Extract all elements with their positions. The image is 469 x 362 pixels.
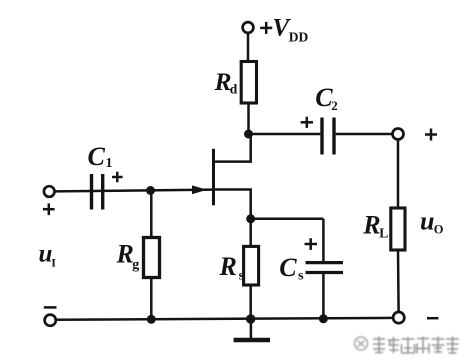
svg-text:C: C [279,253,297,282]
svg-text:u: u [420,206,434,235]
svg-text:d: d [230,81,238,96]
svg-text:DD: DD [289,29,309,44]
svg-text:R: R [116,239,134,268]
svg-text:R: R [362,210,380,239]
svg-text:I: I [51,256,56,270]
svg-text:R: R [219,252,237,281]
svg-text:O: O [434,222,444,236]
svg-text:2: 2 [331,98,338,113]
svg-text:C: C [88,142,106,171]
svg-text:s: s [298,269,304,284]
svg-text:g: g [132,257,139,272]
svg-text:s: s [239,269,245,284]
svg-text:L: L [379,225,388,240]
svg-text:1: 1 [106,156,113,171]
